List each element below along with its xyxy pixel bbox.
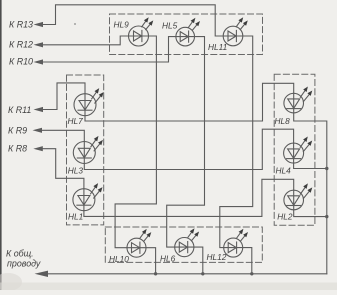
LED HL7: [74, 88, 104, 116]
LED HL12: [224, 229, 248, 257]
wire HL3 cathode to HL4 anode: [84, 129, 293, 169]
wire HL6 cathode to common bus: [194, 247, 203, 274]
wire R9 to HL3 anode: [41, 130, 84, 141]
LED HL6: [175, 228, 199, 256]
wire R13 to HL11 anode: [42, 5, 223, 36]
svg-text:HL10: HL10: [109, 254, 129, 264]
node К R11 arrow: [34, 107, 44, 112]
svg-text:HL11: HL11: [208, 42, 227, 52]
svg-text:HL4: HL4: [276, 166, 292, 176]
dashed group box: bottom row: [105, 227, 262, 262]
svg-text:проводу: проводу: [7, 259, 41, 269]
node К R8 arrow: [33, 146, 43, 151]
wire HL8 cathode down right side: [294, 113, 327, 274]
node К R12 arrow: [34, 42, 44, 47]
svg-text:К R8: К R8: [8, 144, 27, 154]
svg-text:HL2: HL2: [277, 212, 293, 222]
wire HL2 cathode to right bus: [294, 210, 327, 217]
wire HL5 cathode to HL6 anode: [167, 37, 205, 248]
wire HL11 cathode to HL12 anode: [220, 36, 253, 248]
wire HL7 cathode to HL8 anode: [85, 83, 294, 121]
wire HL9 cathode to HL10 anode: [115, 36, 156, 248]
scan edge artifact: [0, 0, 2, 290]
scan smudge bottom-left: [0, 273, 22, 291]
LED HL4: [284, 137, 313, 164]
svg-text:HL9: HL9: [114, 20, 130, 30]
junction HL2/right bus: [325, 215, 328, 218]
dashed group box: top row: [110, 14, 263, 55]
wire HL12 cathode to common bus: [243, 248, 252, 274]
wire R11 to HL7 anode: [42, 83, 85, 110]
junction HL4/right bus: [325, 167, 328, 170]
LED HL5: [176, 18, 200, 46]
LED HL9: [129, 17, 154, 46]
LED HL3: [73, 136, 103, 164]
LED HL10: [127, 229, 151, 257]
node К R9 arrow: [33, 128, 43, 133]
node К общ. проводу arrow: [35, 271, 49, 277]
junction HL12/bus: [250, 272, 253, 275]
wire R12 to HL9 anode: [42, 36, 129, 45]
svg-text:К R12: К R12: [9, 39, 33, 49]
wire HL4 cathode to right bus: [294, 163, 327, 168]
dashed group box: left column: [67, 75, 104, 225]
LED HL1: [73, 183, 103, 211]
svg-text:К R13: К R13: [9, 19, 33, 29]
wire R10 to HL5 anode: [42, 37, 176, 62]
svg-text:К R9: К R9: [8, 126, 27, 136]
node К R10 arrow: [34, 59, 44, 64]
wire R8 to HL1 anode: [42, 149, 84, 189]
node К R13 arrow: [34, 22, 44, 27]
svg-text:HL12: HL12: [207, 252, 227, 262]
svg-text:К общ.: К общ.: [6, 249, 34, 259]
scan speck: [74, 23, 76, 25]
wire HL10 cathode to common bus: [146, 248, 156, 274]
svg-text:HL6: HL6: [160, 253, 176, 263]
junction HL10/bus: [154, 272, 157, 275]
LED HL2: [284, 183, 312, 209]
scan shadow bottom edge: [0, 283, 337, 291]
svg-text:HL5: HL5: [162, 20, 178, 30]
svg-text:К R10: К R10: [9, 57, 33, 67]
svg-text:HL8: HL8: [275, 116, 291, 126]
svg-text:HL3: HL3: [68, 166, 84, 176]
junction HL6/bus: [201, 272, 204, 275]
svg-text:К R11: К R11: [8, 105, 31, 115]
svg-text:HL1: HL1: [68, 212, 83, 222]
dashed group box: right column: [274, 74, 315, 225]
wire HL1 cathode to HL2 anode: [84, 179, 294, 216]
LED HL11: [223, 17, 248, 46]
LED HL8: [284, 87, 312, 113]
wire common bus: [47, 273, 327, 275]
svg-text:HL7: HL7: [68, 116, 84, 126]
